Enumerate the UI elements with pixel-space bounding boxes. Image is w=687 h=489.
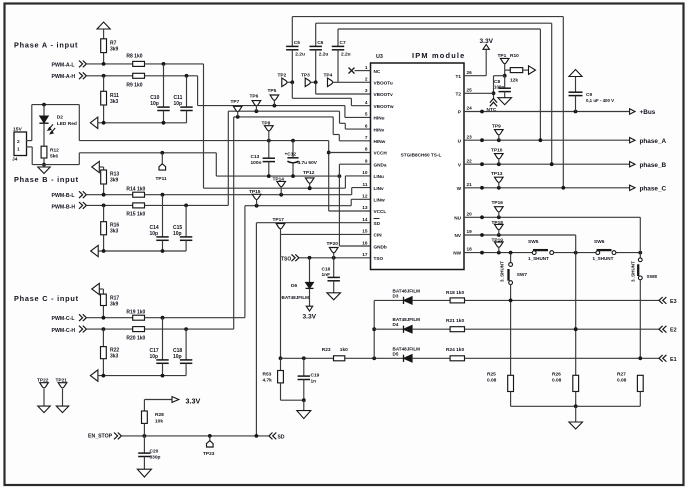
test point TP4 <box>324 73 339 87</box>
svg-text:PWM-B-H: PWM-B-H <box>52 205 76 211</box>
connector J4 <box>12 127 27 163</box>
resistor R7 <box>101 39 119 64</box>
svg-text:18: 18 <box>467 247 473 252</box>
svg-text:Phase A - input: Phase A - input <box>14 41 78 50</box>
capacitor C17 <box>150 318 169 376</box>
capacitor C13 <box>251 141 276 177</box>
svg-text:1: 1 <box>17 147 20 153</box>
wire LINw line <box>245 199 371 207</box>
wire T2 stub <box>464 92 494 94</box>
svg-text:5k6: 5k6 <box>50 154 58 160</box>
svg-text:T2: T2 <box>456 92 462 97</box>
svg-text:J4: J4 <box>12 157 18 163</box>
svg-text:1_SHUNT: 1_SHUNT <box>593 256 614 261</box>
diode D3 <box>393 288 421 304</box>
wire PWM-C-H to riser <box>145 327 234 331</box>
label PWM-A-L <box>52 62 76 68</box>
svg-text:3.3V: 3.3V <box>303 314 317 321</box>
supply 3.3V at R28 <box>144 396 200 405</box>
wire R12 bottom <box>42 158 46 167</box>
diode D6 <box>282 258 314 300</box>
resistor R26 <box>552 372 579 392</box>
svg-text:phase_C: phase_C <box>640 186 667 193</box>
wire PWM-A-L <box>87 62 133 66</box>
svg-text:15V: 15V <box>13 127 22 133</box>
wire CIN node row <box>279 356 334 360</box>
wire C5 to VBOOTw pin4 <box>292 82 370 105</box>
resistor R15 <box>126 203 145 218</box>
test point TP10 <box>491 148 503 165</box>
svg-text:CIN: CIN <box>374 233 383 238</box>
svg-text:R25: R25 <box>487 372 496 378</box>
left pin numbers <box>362 65 368 257</box>
LED D2 <box>39 105 76 134</box>
svg-text:R21 1k0: R21 1k0 <box>446 318 464 324</box>
wire PWM-B-L <box>87 193 133 197</box>
wire SW6 to NU riser <box>616 251 642 255</box>
svg-text:PWM-B-L: PWM-B-L <box>52 193 76 199</box>
svg-text:NTC: NTC <box>487 107 497 113</box>
wire VCCL stub <box>329 210 371 212</box>
wire bootstrap V top <box>316 23 552 164</box>
svg-text:VBOOTw: VBOOTw <box>374 104 394 109</box>
capacitor C10 <box>150 64 170 123</box>
wire PWM-C-L to riser <box>145 316 245 320</box>
test point TP5 <box>268 88 279 106</box>
svg-text:HINw: HINw <box>374 139 386 144</box>
svg-text:LED Red: LED Red <box>57 121 77 127</box>
resistor R22 <box>101 329 120 376</box>
wire VBOOTu pin2 <box>338 81 371 83</box>
wire PWM-B-H riser <box>227 111 229 205</box>
wire PWM-B-H <box>87 204 133 208</box>
wire phase B bottom rail <box>98 249 186 253</box>
svg-text:TP6: TP6 <box>250 94 259 100</box>
svg-text:W: W <box>457 186 462 191</box>
supply arrow above R7 <box>97 22 110 39</box>
test point TP8 <box>262 121 274 141</box>
svg-text:4.7u 50V: 4.7u 50V <box>298 160 318 166</box>
wire LINv line <box>145 188 371 197</box>
svg-text:R9 1k0: R9 1k0 <box>126 82 142 88</box>
wire PWM-B-H to riser <box>145 204 229 208</box>
resistor R20 <box>126 327 145 342</box>
test point TP23 <box>203 436 215 457</box>
svg-text:SD: SD <box>278 434 285 440</box>
svg-text:PWM-C-H: PWM-C-H <box>52 328 76 334</box>
svg-text:HINv: HINv <box>374 127 385 132</box>
svg-text:R26: R26 <box>552 372 561 378</box>
svg-text:12k: 12k <box>510 78 518 84</box>
svg-text:TP20: TP20 <box>327 241 339 247</box>
wire +15V to VCCH VCCL <box>327 141 331 211</box>
svg-text:R27: R27 <box>617 372 626 378</box>
switch SW8 <box>631 258 658 358</box>
svg-text:R20 1k0: R20 1k0 <box>126 335 145 341</box>
svg-text:GNDb: GNDb <box>374 244 387 249</box>
diode D4 <box>393 317 421 333</box>
arrow phase B rail <box>91 245 99 256</box>
wire between SW5 SW6 <box>554 251 596 255</box>
wire node to T2 <box>492 76 496 99</box>
svg-text:1n: 1n <box>311 379 317 385</box>
wire EN_STOP line <box>122 434 269 438</box>
wire +15V rail <box>79 139 328 143</box>
svg-text:0.08: 0.08 <box>487 378 497 384</box>
wire GND corner down <box>215 153 217 176</box>
svg-text:D2: D2 <box>57 115 63 121</box>
svg-text:1nF: 1nF <box>322 272 331 278</box>
svg-text:R53: R53 <box>263 372 272 378</box>
wire J4 pin1 stub <box>26 147 32 165</box>
svg-text:13: 13 <box>362 205 368 210</box>
label part number STGIB8CH60 <box>401 153 442 158</box>
svg-text:9: 9 <box>365 158 368 163</box>
svg-text:22: 22 <box>467 158 473 163</box>
svg-text:10p: 10p <box>150 231 159 237</box>
svg-text:3: 3 <box>365 88 368 93</box>
wire NV column to R26 <box>574 253 578 376</box>
wire GND line to TP11 corner <box>79 151 216 155</box>
capacitor C14 <box>150 195 169 251</box>
svg-text:C20: C20 <box>150 449 159 455</box>
wire D4 to R21 <box>412 328 450 330</box>
svg-text:D6: D6 <box>291 283 297 289</box>
svg-text:8: 8 <box>365 147 368 152</box>
resistor R11 <box>101 76 119 123</box>
input connector PWM-A-H <box>79 72 86 79</box>
svg-text:TP13: TP13 <box>491 171 503 177</box>
label Phase B input <box>14 175 79 184</box>
svg-text:TP17: TP17 <box>273 217 285 223</box>
svg-text:3k9: 3k9 <box>110 178 119 184</box>
wire CIN line <box>281 234 371 358</box>
svg-text:E3: E3 <box>670 299 677 305</box>
arrow above R13 <box>92 161 104 172</box>
svg-text:VBOOTu: VBOOTu <box>374 81 393 86</box>
svg-text:3_SHUNT: 3_SHUNT <box>631 261 636 282</box>
resistor R8 <box>126 54 144 67</box>
capacitor C9 <box>569 70 615 112</box>
wire J4 pin2 stub <box>26 105 32 141</box>
wire E3 row left <box>374 299 403 301</box>
svg-text:25: 25 <box>467 88 473 93</box>
svg-text:TP12: TP12 <box>303 170 315 176</box>
svg-text:6: 6 <box>365 123 368 128</box>
svg-text:NC: NC <box>374 69 381 74</box>
wire GNDb stub <box>339 245 370 247</box>
svg-text:HINu: HINu <box>374 116 385 121</box>
ground shunt rail <box>569 406 583 429</box>
left pin names <box>374 69 394 261</box>
wire T1 to 3.3V <box>464 49 486 75</box>
wire PWM-C-L riser to LINw <box>244 206 246 318</box>
label U3 <box>376 54 383 60</box>
test point TP12 <box>303 170 315 190</box>
svg-text:1k0: 1k0 <box>340 347 348 353</box>
test point TP9 <box>492 124 503 141</box>
svg-text:U3: U3 <box>376 54 383 60</box>
svg-text:R12: R12 <box>50 148 59 154</box>
wire D3 to R18 <box>412 299 450 301</box>
wire GND jog up <box>78 153 80 165</box>
svg-text:TP16: TP16 <box>492 200 504 206</box>
svg-text:R19 1k0: R19 1k0 <box>126 309 145 315</box>
wire PWM-A-L to corner <box>145 62 204 66</box>
right pin numbers <box>467 70 473 252</box>
wire TSO line <box>300 256 371 260</box>
svg-text:TP7: TP7 <box>231 99 240 105</box>
capacitor C12 polarized <box>285 141 318 177</box>
svg-text:R8 1k0: R8 1k0 <box>126 54 142 60</box>
svg-text:D5: D5 <box>393 351 399 356</box>
svg-text:R24 1k0: R24 1k0 <box>446 347 464 353</box>
svg-text:NV: NV <box>454 233 461 238</box>
svg-text:SW7: SW7 <box>517 272 528 278</box>
input connector TSO <box>292 254 299 261</box>
label EN_STOP <box>88 433 113 439</box>
svg-text:0.08: 0.08 <box>617 378 627 384</box>
output arrow +Bus <box>630 109 656 116</box>
wire NU line <box>464 215 640 219</box>
output connector E2 <box>659 326 677 334</box>
ground below R12 <box>38 165 50 174</box>
svg-text:5: 5 <box>365 112 368 117</box>
test point TP1 <box>498 53 510 70</box>
svg-text:10p: 10p <box>173 354 182 360</box>
capacitor C6 <box>310 23 329 82</box>
svg-text:TP4: TP4 <box>324 73 333 79</box>
svg-text:330p: 330p <box>150 454 161 460</box>
svg-text:+Bus: +Bus <box>640 109 656 116</box>
svg-text:0,1 uF - 400 V: 0,1 uF - 400 V <box>586 98 614 103</box>
wire E2 row right <box>465 327 660 331</box>
svg-text:1_SHUNT: 1_SHUNT <box>528 256 549 261</box>
right pin names <box>453 74 462 256</box>
wire PWM-A-H to corner <box>145 74 198 78</box>
svg-text:C19: C19 <box>311 373 320 379</box>
resistor R23 <box>322 347 348 361</box>
wire shunt bottom rail <box>511 392 641 409</box>
resistor R24 <box>446 347 465 361</box>
svg-text:15: 15 <box>362 229 368 234</box>
svg-text:3.3V: 3.3V <box>480 38 494 45</box>
wire HINv line <box>228 109 370 129</box>
wire bootstrap W top <box>292 17 563 188</box>
resistor R28 <box>142 400 165 436</box>
wire NV riser <box>575 235 577 253</box>
svg-text:VCCL: VCCL <box>374 209 387 214</box>
svg-text:3k9: 3k9 <box>110 47 119 53</box>
wire phase_B line V <box>464 162 629 166</box>
wire LINu line <box>204 176 371 190</box>
wire +Bus line P <box>464 110 629 114</box>
capacitor C18 <box>173 329 192 376</box>
svg-text:TP5: TP5 <box>268 88 277 94</box>
svg-text:T1: T1 <box>456 74 462 79</box>
label Phase C input <box>14 294 79 303</box>
svg-text:SD: SD <box>374 221 381 226</box>
wire GNDa stub <box>339 163 370 165</box>
capacitor C11 <box>174 76 193 123</box>
svg-text:R18 1k0: R18 1k0 <box>446 290 464 296</box>
svg-text:TP3: TP3 <box>301 73 310 79</box>
test point TP3 <box>301 73 318 87</box>
svg-text:D4: D4 <box>393 322 399 327</box>
wire C6 to VBOOTv pin3 <box>316 82 371 94</box>
svg-text:R10: R10 <box>510 53 519 59</box>
svg-text:TP23: TP23 <box>203 451 215 457</box>
resistor R53 <box>263 358 284 400</box>
svg-text:TSO: TSO <box>374 256 384 261</box>
svg-text:EN_STOP: EN_STOP <box>88 433 113 439</box>
svg-text:LINv: LINv <box>374 186 385 191</box>
resistor R16 <box>101 205 120 251</box>
resistor R19 <box>126 309 145 320</box>
wire NU riser <box>639 217 641 258</box>
resistor R25 <box>487 372 514 392</box>
svg-text:SW5: SW5 <box>528 239 539 245</box>
svg-text:TP8: TP8 <box>262 121 271 127</box>
resistor R21 <box>446 318 465 332</box>
svg-text:14: 14 <box>362 217 368 222</box>
wire E2 row left <box>374 328 403 330</box>
input connector EN_STOP <box>114 433 121 440</box>
capacitor C20 <box>138 436 160 469</box>
supply 3.3V at T1 <box>480 38 494 49</box>
svg-text:2.2u: 2.2u <box>295 52 305 58</box>
wire bootstrap U top <box>338 29 540 140</box>
resistor R17 <box>101 294 120 318</box>
output connector E3 <box>659 297 677 305</box>
svg-text:3.3V: 3.3V <box>186 396 201 405</box>
test point TP17 <box>273 217 285 234</box>
svg-text:3k3: 3k3 <box>110 229 119 235</box>
wire PWM-A-H vertical to HINu <box>197 76 199 106</box>
label PWM-B-L <box>52 193 76 199</box>
wire SW7 column to R25 <box>510 300 512 375</box>
ground below C8 <box>498 98 512 105</box>
wire PWM-A-L vertical to LINu <box>203 64 205 188</box>
svg-text:TP10: TP10 <box>491 148 503 154</box>
arrow phase A rail <box>90 117 98 128</box>
test point TP2 <box>278 73 295 87</box>
output arrow phase_C <box>630 185 667 193</box>
svg-text:E1: E1 <box>670 357 677 363</box>
svg-text:C13: C13 <box>251 154 260 160</box>
svg-text:NU: NU <box>454 216 461 221</box>
svg-text:100n: 100n <box>251 160 262 166</box>
arrow phase C rail <box>90 370 98 381</box>
svg-text:NW: NW <box>453 251 461 256</box>
ground below C20 <box>137 469 151 477</box>
ground below C16 <box>327 293 341 300</box>
svg-text:10p: 10p <box>173 231 182 237</box>
diode D5 <box>393 346 421 362</box>
test point TP13 <box>491 171 503 188</box>
svg-text:+C12: +C12 <box>285 151 297 157</box>
output arrow phase_B <box>630 162 667 170</box>
wire D2 loop right side <box>78 105 80 141</box>
wire HINu line <box>198 104 371 118</box>
input connector PWM-A-L <box>79 61 86 68</box>
supply 3.3V below D6 <box>303 288 317 320</box>
svg-text:LINw: LINw <box>374 198 386 203</box>
wire TP1 node <box>494 70 507 78</box>
svg-text:R15 1k0: R15 1k0 <box>126 212 145 218</box>
wire E3 row right <box>465 299 660 303</box>
wire PWM-A-H <box>87 74 133 78</box>
svg-text:LINu: LINu <box>374 174 385 179</box>
label IPM module <box>412 51 465 60</box>
svg-text:PWM-A-H: PWM-A-H <box>52 74 76 80</box>
svg-text:PWM-A-L: PWM-A-L <box>52 62 76 68</box>
test point TP19 <box>492 238 504 253</box>
label PWM-C-L <box>52 316 76 322</box>
wire sense common vertical <box>372 300 376 358</box>
wire VCCH stub <box>329 152 371 154</box>
svg-text:phase_A: phase_A <box>640 138 667 145</box>
svg-text:TSO: TSO <box>281 256 291 262</box>
svg-text:R14 1k0: R14 1k0 <box>126 186 145 192</box>
wire phase_A line U <box>464 138 629 142</box>
svg-text:16: 16 <box>362 240 368 245</box>
svg-text:19: 19 <box>467 229 473 234</box>
wire PWM-C-L <box>87 316 133 320</box>
NTC connector <box>487 99 498 114</box>
svg-text:VCCH: VCCH <box>374 151 388 156</box>
capacitor C8 <box>494 76 511 98</box>
test point TP15 <box>249 189 261 206</box>
capacitor C15 <box>173 205 192 251</box>
svg-text:0.08: 0.08 <box>552 378 562 384</box>
test point TP11 <box>156 153 168 182</box>
label PWM-C-H <box>52 328 76 334</box>
svg-text:4.7k: 4.7k <box>263 378 273 384</box>
resistor R14 <box>126 186 145 197</box>
resistor R18 <box>446 290 465 303</box>
switch SW6 <box>593 239 616 261</box>
wire phase C bottom rail <box>98 374 186 378</box>
svg-text:SW8: SW8 <box>647 274 658 280</box>
svg-text:phase_B: phase_B <box>640 162 667 169</box>
arrow above R17 <box>92 283 104 294</box>
op-amp U3 IPM body <box>371 63 465 270</box>
test point TP21 <box>56 377 69 412</box>
output connector E1 <box>659 355 677 363</box>
svg-text:Phase B - input: Phase B - input <box>14 175 79 184</box>
wire D5 to R24 <box>412 357 450 359</box>
svg-text:3k3: 3k3 <box>110 99 119 105</box>
svg-text:10p: 10p <box>150 354 159 360</box>
wire GND rail J4 <box>32 164 79 166</box>
svg-text:23: 23 <box>467 134 473 139</box>
svg-text:26: 26 <box>467 70 473 75</box>
label Phase A input <box>14 41 78 50</box>
ground below C19 <box>297 400 311 418</box>
capacitor C7 <box>332 29 351 82</box>
svg-text:TP11: TP11 <box>156 176 168 182</box>
wire PWM-C-H riser <box>233 117 235 329</box>
svg-text:2: 2 <box>365 77 368 82</box>
input connector PWM-B-L <box>79 191 86 198</box>
svg-text:BAT48JFILM: BAT48JFILM <box>282 295 310 300</box>
svg-text:21: 21 <box>467 182 473 187</box>
capacitor C19 <box>298 358 320 400</box>
resistor R13 <box>101 170 120 195</box>
svg-text:11: 11 <box>363 182 368 187</box>
svg-text:17: 17 <box>362 252 368 257</box>
